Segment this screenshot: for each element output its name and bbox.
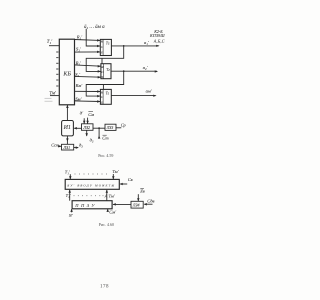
delay line LZ1: [62, 144, 74, 150]
stub wire Cm' into PPZU bottom right: [107, 209, 109, 212]
wire LZ2 to LZ3: [93, 127, 105, 129]
wire LZ4 to PPZU: [113, 203, 131, 205]
svg-text:Тг: Тг: [106, 41, 110, 45]
wire feedback2 into T3 top: [102, 85, 104, 90]
stub wire Zv into LZ4 top: [137, 194, 139, 201]
wire Rm' KB to trigger3 R: [75, 90, 101, 92]
wire S1' KB to trigger1 S: [75, 51, 101, 53]
arrowhead Zv into LZ4: [137, 198, 140, 201]
wire T3 output to arrow am': [111, 94, 155, 96]
svg-text:И1: И1: [63, 125, 71, 131]
wire LZ1 output: [74, 147, 78, 149]
feedback wire T2 out to trigger3 C: [86, 71, 124, 96]
trigger T2: [100, 64, 111, 79]
wire Sm' KB to trigger3 S: [75, 100, 101, 103]
arrowhead Sst into LZ1: [58, 145, 61, 148]
block PPZU programmable ROM: [72, 201, 112, 209]
dotted ellipsis between blocks: [74, 194, 104, 197]
wire S2' KB to trigger2 S: [75, 75, 101, 78]
arrowhead Sm' at trigger3 S: [97, 100, 100, 103]
junction node T1 out: [123, 45, 125, 47]
svg-text:См: См: [88, 112, 94, 117]
block KB (main control block): [59, 39, 74, 105]
svg-text:Тг: Тг: [106, 68, 110, 72]
junction node Ct: [98, 127, 100, 129]
svg-text:Ср: Ср: [121, 123, 126, 128]
arrowhead Cm' (up): [106, 209, 109, 212]
svg-text:А Тм′: А Тм′: [104, 193, 116, 198]
arrowhead am': [153, 95, 156, 97]
connector PPZU to BU (right): [106, 190, 108, 201]
svg-text:Сдв: Сдв: [147, 198, 154, 203]
arrowhead a2': [155, 70, 158, 72]
stub wire N into PPZU bottom: [71, 209, 73, 212]
svg-text:д₂: д₂: [90, 137, 94, 142]
svg-text:S: S: [101, 51, 103, 55]
pin ticks (ellipsis) on left edge of KB: [56, 52, 58, 86]
wire LZ3 output to Cp: [116, 127, 121, 129]
arrowhead S2: [98, 76, 101, 79]
stub wire LZ2 bottom output: [86, 130, 88, 136]
svg-text:Св: Св: [128, 177, 133, 182]
svg-text:КП39Ш: КП39Ш: [149, 33, 165, 38]
wire Tm' input: [50, 95, 59, 97]
wire feedback1 into T2 top: [101, 58, 103, 63]
svg-text:S: S: [101, 101, 103, 105]
wire LZ2 to I1 right input: [74, 127, 81, 129]
svg-text:Ст: Ст: [102, 136, 109, 141]
arrowhead into BU bottom (left): [68, 190, 71, 193]
wire KB bottom to I1 top: [66, 105, 68, 121]
arrowhead S1: [97, 51, 100, 54]
svg-text:д₂: д₂: [79, 143, 83, 148]
svg-text:ЛЗ2: ЛЗ2: [82, 125, 90, 130]
svg-text:Рис. 4.60: Рис. 4.60: [99, 222, 114, 227]
svg-text:ā₁ … āм а: ā₁ … āм а: [84, 25, 105, 30]
arrowhead Tm' into BU: [112, 176, 115, 179]
arrowhead LZ2 bottom: [85, 133, 88, 136]
svg-text:ам′: ам′: [146, 88, 153, 93]
svg-text:ЛЗ4: ЛЗ4: [132, 203, 140, 208]
faint bleed smudges under Tm': [45, 98, 53, 101]
svg-text:БУ′ ВВОДУ МОНЕТЫ: БУ′ ВВОДУ МОНЕТЫ: [66, 184, 115, 188]
svg-text:R₁′: R₁′: [76, 34, 83, 39]
delay line LZ2: [82, 124, 94, 131]
arrowheads into LZ2 top: [83, 121, 89, 124]
delay line LZ3: [105, 124, 116, 130]
svg-text:КБ: КБ: [62, 71, 71, 77]
svg-text:ППЗУ: ППЗУ: [74, 203, 97, 208]
feedback wire T1 out to trigger2 C: [86, 46, 124, 72]
arrowhead C3: [97, 95, 100, 98]
arrowhead LZ1 output: [76, 146, 79, 149]
wire a1 down to trigger1 C: [86, 29, 100, 46]
svg-text:Тм′: Тм′: [112, 169, 119, 174]
wire T1' into BU: [69, 174, 71, 179]
svg-text:См′: См′: [109, 210, 117, 215]
arrowhead into KB bottom (up): [66, 105, 69, 108]
arrowhead R1: [97, 39, 100, 42]
arrowhead C2: [98, 70, 101, 73]
arrowhead into I1 right: [74, 127, 77, 130]
dotted ellipsis above BU: [75, 173, 107, 176]
arrowhead N (up): [70, 209, 73, 212]
arrowhead C1: [97, 45, 100, 48]
wire Sst into LZ1: [58, 145, 62, 147]
wire T2 output to arrow a2': [111, 70, 157, 72]
wire I1 bottom to LZ1: [66, 136, 68, 144]
stub wire Ct up into junction: [98, 128, 100, 138]
arrowhead T1' into BU: [69, 176, 72, 179]
AND gate I1: [62, 121, 74, 136]
arrowhead down into LZ1: [66, 138, 69, 141]
svg-text:ЛЗ1: ЛЗ1: [62, 145, 70, 150]
wire T1 output to arrow a1': [111, 45, 158, 47]
svg-text:Zв: Zв: [140, 188, 145, 193]
arrowhead Cv into BU: [120, 183, 123, 186]
connector PPZU to BU (left): [69, 190, 71, 201]
arrowhead Sdv into LZ4: [144, 203, 147, 206]
svg-text:ЛЗ3: ЛЗ3: [106, 125, 114, 130]
wire Cv into BU right: [120, 183, 127, 185]
stub wires into LZ2 top: [84, 118, 87, 124]
svg-text:Рис. 4.59: Рис. 4.59: [98, 153, 113, 158]
svg-text:Тг: Тг: [106, 92, 110, 96]
arrowhead R2: [98, 65, 101, 68]
arrowhead into PPZU right: [113, 203, 116, 206]
delay line LZ4: [131, 201, 143, 208]
arrowhead Ct (up): [98, 135, 101, 138]
trigger T3: [100, 89, 111, 104]
arrowhead a1': [156, 45, 159, 47]
block BU coin input control unit: [65, 179, 119, 189]
wire Sdv into LZ4 right: [144, 203, 152, 205]
svg-text:178: 178: [100, 285, 109, 290]
svg-text:Сст: Сст: [51, 142, 59, 147]
wire T1' input: [49, 45, 59, 47]
wire Tm' into BU: [112, 174, 114, 179]
wire R1' KB to trigger1 R: [75, 39, 101, 42]
arrowhead into BU bottom (right): [106, 190, 109, 193]
junction node T2 out: [123, 70, 125, 72]
trigger T1: [100, 39, 112, 55]
svg-text:Rм′: Rм′: [75, 83, 84, 88]
wire R2' KB to trigger2 R: [75, 65, 101, 66]
paper background: [0, 0, 210, 300]
arrowhead R3: [97, 90, 100, 93]
svg-text:S: S: [101, 75, 103, 79]
